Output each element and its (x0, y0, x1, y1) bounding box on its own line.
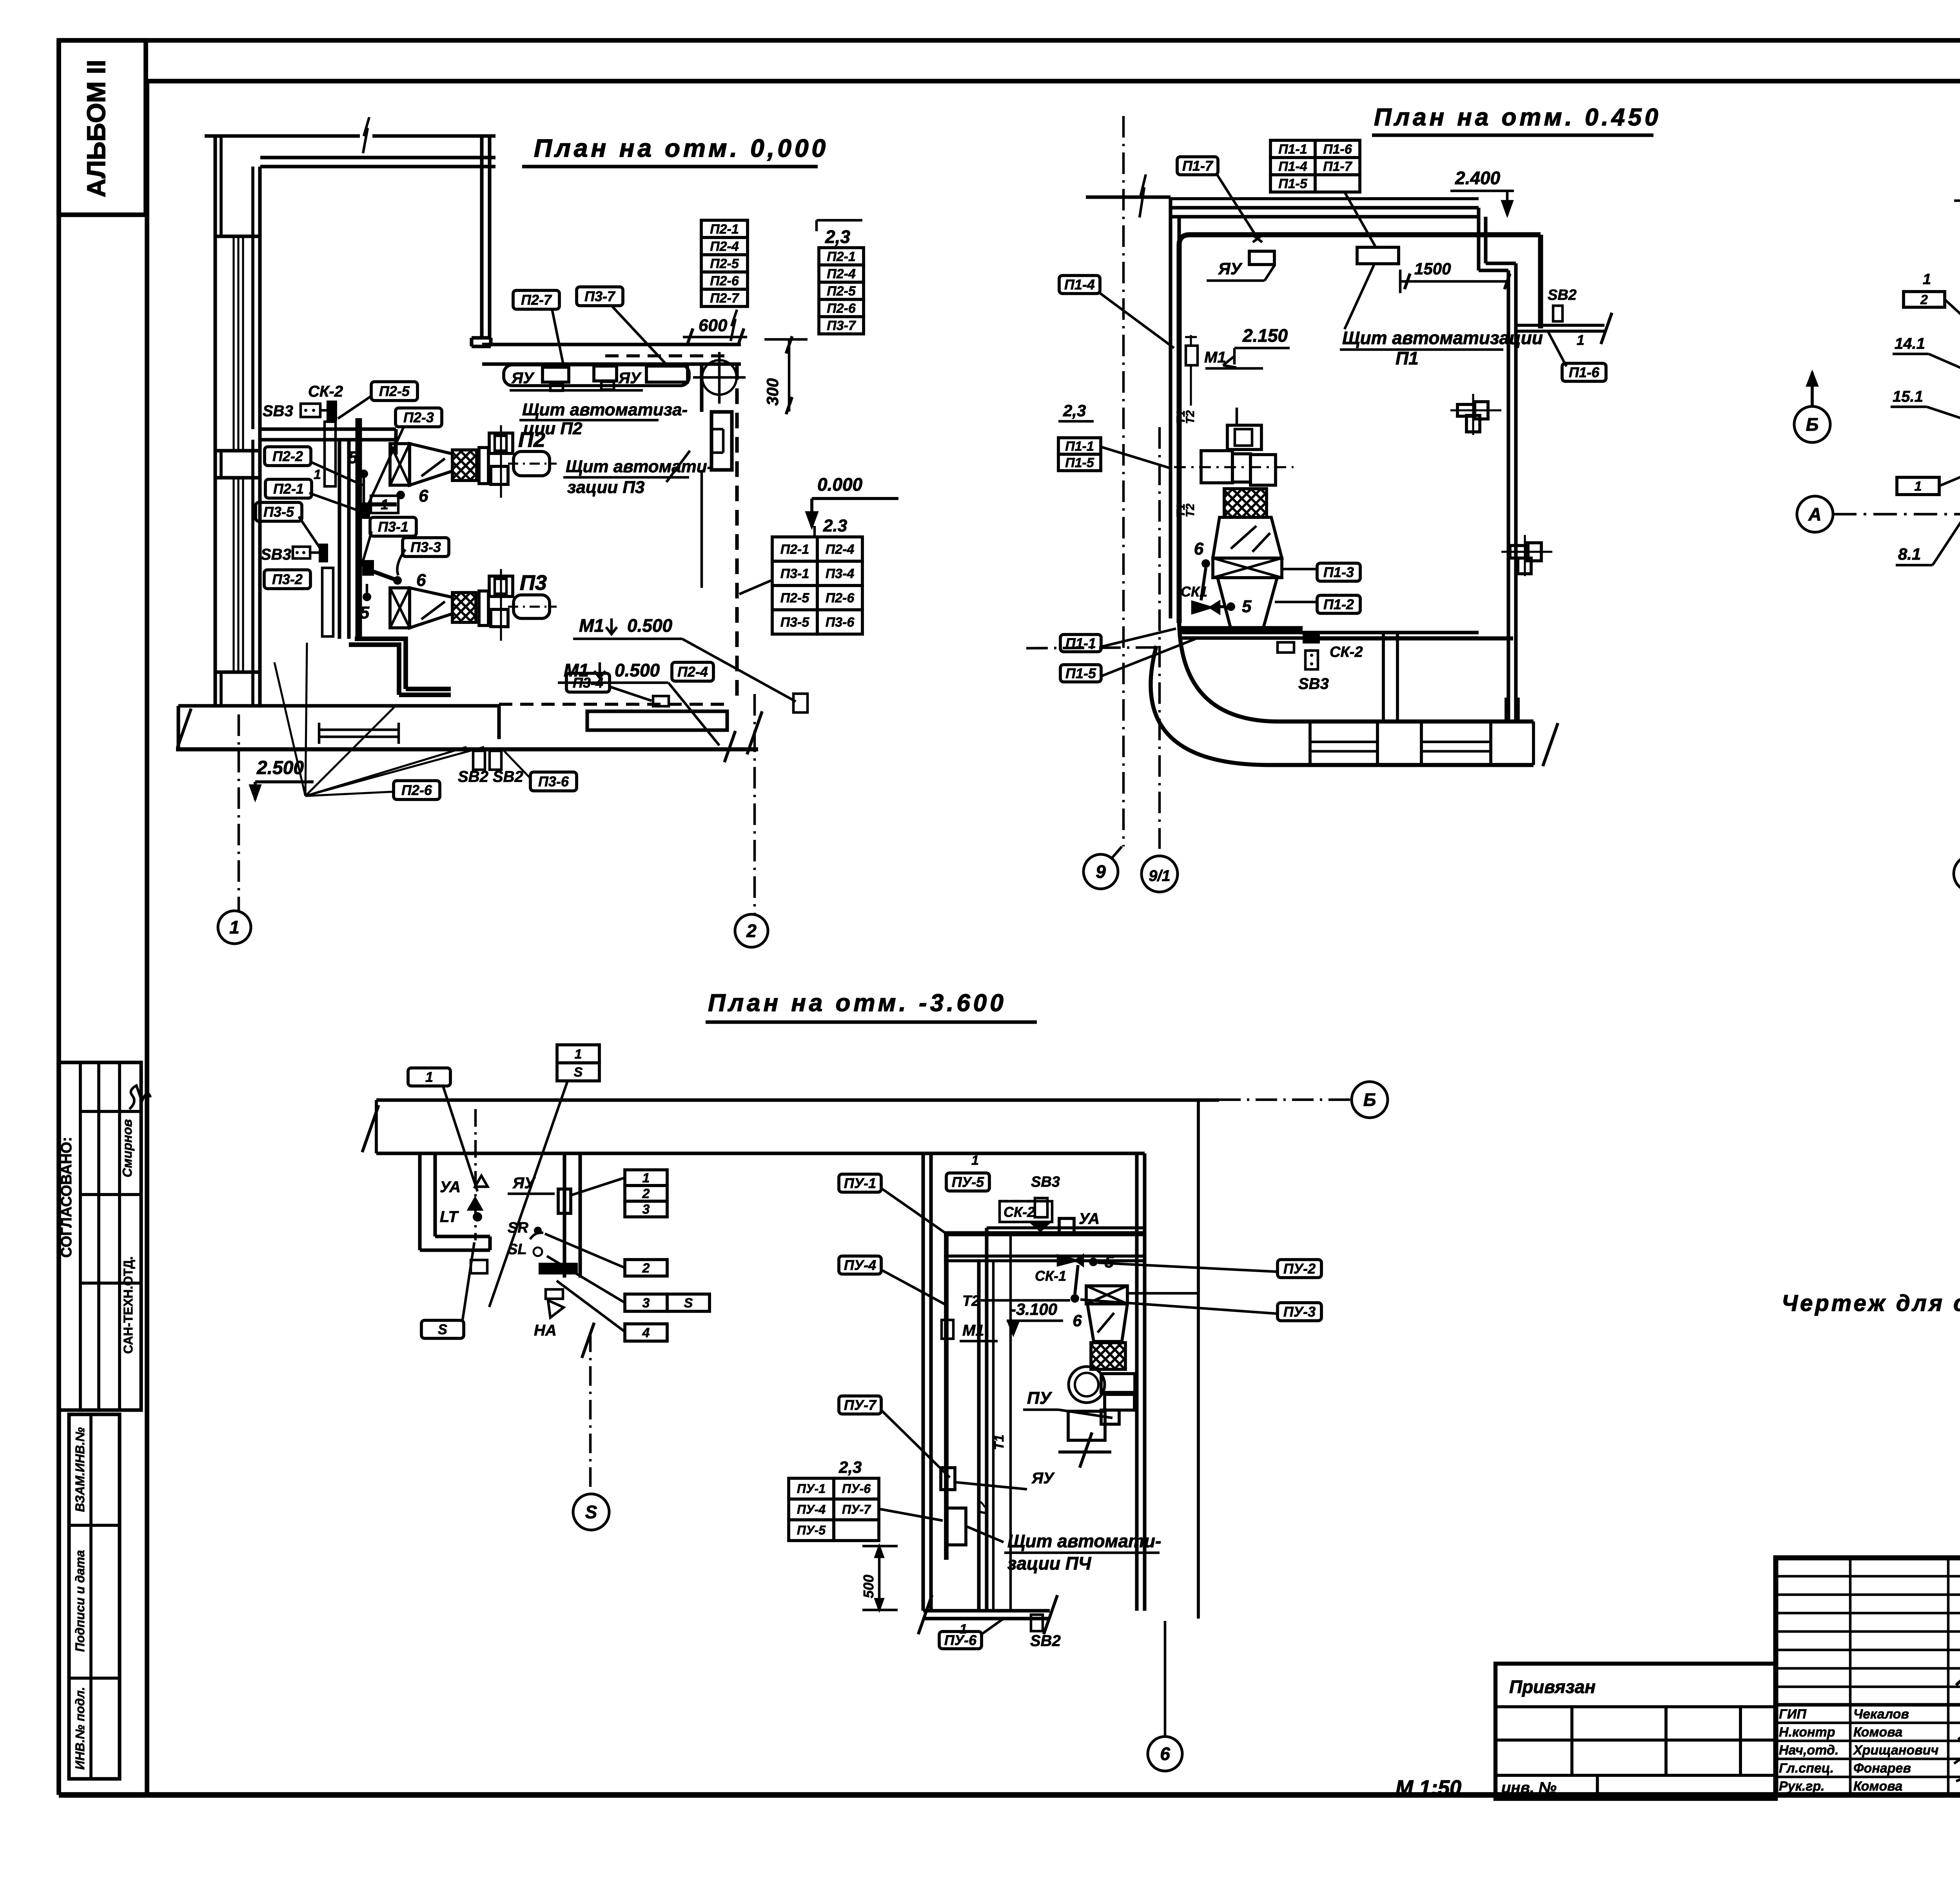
plan4 leaders from boxes (443, 1086, 477, 1191)
plan2 room top wall upper line (1171, 197, 1479, 200)
plan4 circle 6 axis (1148, 1737, 1182, 1771)
leader P1-1 stack (1101, 447, 1172, 469)
plan2 room top wall (1171, 206, 1479, 209)
svg-text:6: 6 (1194, 539, 1204, 558)
svg-text:П3-6: П3-6 (826, 615, 855, 630)
svg-text:П3-5: П3-5 (263, 504, 294, 520)
plan4 right stack 123 (625, 1170, 667, 1186)
svg-text:15.1: 15.1 (1893, 388, 1923, 405)
svg-text:П3-1: П3-1 (780, 566, 809, 581)
svg-text:Щит автоматизации: Щит автоматизации (1342, 328, 1543, 348)
plan4 subroom bottom (420, 1248, 490, 1252)
plan2 SB2 box (1553, 306, 1563, 321)
svg-text:SB3: SB3 (1298, 675, 1329, 692)
svg-text:Чекалов: Чекалов (1853, 1707, 1909, 1722)
plan1 trough YaU (504, 365, 689, 386)
label box P1-4 plan2 (1059, 276, 1100, 294)
plan2 left wall (1169, 197, 1172, 618)
plan3 axis4 top tick (1954, 199, 1960, 202)
label box P2-6 (394, 781, 440, 799)
label box P2-2 (265, 447, 311, 466)
plan4 4 box (625, 1324, 667, 1341)
plan2 top stub wall left (1086, 195, 1171, 199)
plan4 cabinet rect (947, 1508, 966, 1545)
svg-text:8.1: 8.1 (1898, 545, 1921, 563)
svg-text:П2-6: П2-6 (827, 301, 856, 316)
node 6 lower (393, 576, 402, 585)
plan2 top right step (1477, 208, 1480, 270)
label box PU-5 (946, 1173, 989, 1191)
svg-text:П2-1: П2-1 (710, 222, 739, 237)
svg-text:1: 1 (1577, 332, 1584, 348)
svg-text:2,3: 2,3 (825, 227, 850, 247)
svg-text:2,3: 2,3 (1063, 401, 1086, 420)
leader fan plan1 (274, 662, 305, 796)
plan4 T1 vertical line (1009, 1236, 1012, 1611)
leader P3-4 (610, 687, 652, 701)
svg-text:План на отм. 0.450: План на отм. 0.450 (1374, 104, 1661, 131)
leader PU-4 (881, 1270, 946, 1305)
plan1 damper circle (702, 360, 737, 395)
plan4 funnel (1087, 1304, 1127, 1341)
label box P2-7 (513, 290, 559, 309)
svg-text:П2-3: П2-3 (403, 410, 434, 426)
svg-text:П1-1: П1-1 (1065, 439, 1094, 454)
svg-text:ЯУ: ЯУ (618, 370, 642, 387)
plan1 dashed right boundary (735, 364, 739, 704)
plan1 bottom left end (176, 706, 180, 749)
svg-text:Фонарев: Фонарев (1853, 1761, 1911, 1776)
svg-text:П3-1: П3-1 (378, 519, 408, 535)
svg-text:Т2: Т2 (1184, 504, 1197, 517)
plan4 YaU rect sub (558, 1189, 571, 1213)
plan1 cable riser (356, 418, 362, 639)
sidebar signature (129, 1086, 151, 1109)
SB3 top connector (327, 401, 337, 421)
plan2 cable top (1190, 232, 1541, 237)
svg-text:П1-1: П1-1 (1065, 635, 1096, 651)
svg-text:Рук.гр.: Рук.гр. (1779, 1779, 1825, 1794)
svg-text:П2-1: П2-1 (273, 481, 304, 497)
plan1 bottom break right (747, 711, 762, 754)
svg-text:П1-4: П1-4 (1278, 159, 1307, 174)
label stack P2 top (701, 220, 748, 237)
leader table to dashed wall (739, 580, 772, 594)
svg-text:SB2: SB2 (1030, 1632, 1061, 1650)
svg-text:Подписи и дата: Подписи и дата (73, 1550, 87, 1652)
leader P1-1 low (1102, 629, 1176, 647)
sidebar lower table (69, 1414, 120, 1779)
plan1 T partition stem (338, 440, 341, 639)
svg-text:6: 6 (419, 486, 428, 506)
svg-text:SB3: SB3 (1031, 1174, 1060, 1190)
svg-text:0.500: 0.500 (615, 660, 660, 680)
plan1 window sills (215, 234, 259, 238)
node 6 upper (396, 491, 405, 499)
plan2 duct strip bottom (1266, 763, 1534, 767)
svg-text:9: 9 (1096, 861, 1106, 882)
plan1 duct bend lower (355, 639, 406, 689)
leader 2 box p4 (545, 1234, 625, 1268)
svg-text:П3-6: П3-6 (538, 774, 569, 790)
plan4 S box left (421, 1320, 464, 1338)
leader 15.1 (1927, 407, 1960, 432)
svg-text:П3-4: П3-4 (573, 675, 603, 691)
svg-text:ции П2: ции П2 (523, 419, 583, 438)
leader P2-1 (309, 493, 358, 510)
svg-text:П1-3: П1-3 (1323, 564, 1354, 580)
leader 3 box p4 (547, 1256, 625, 1303)
leader 1 box low (1939, 462, 1960, 486)
plan1 left wall inner (258, 167, 261, 707)
svg-text:Привязан: Привязан (1509, 1677, 1595, 1697)
SB3 bottom connector (319, 544, 328, 562)
plan2 duct riser 1 (1382, 632, 1385, 721)
label box P1-5 low (1060, 665, 1101, 682)
SB2 boxes plan1 (473, 751, 485, 770)
leader P2-2 (310, 462, 363, 485)
plan2 cable left riser (1177, 245, 1182, 623)
plan1 left wall outer (213, 136, 217, 707)
plan2 corner arc inner (1179, 618, 1279, 721)
plan2 duct riser 2 (1504, 698, 1508, 721)
plan2 right wall (1506, 270, 1510, 721)
leader M1-2 (668, 683, 719, 745)
svg-text:6: 6 (416, 571, 426, 590)
svg-text:П2-4: П2-4 (710, 239, 739, 254)
svg-text:2: 2 (642, 1261, 650, 1276)
label box P1-3 (1317, 563, 1360, 581)
svg-text:Б: Б (1363, 1089, 1376, 1110)
svg-text:П3-7: П3-7 (584, 288, 616, 305)
plan4 corridor left end (375, 1100, 378, 1153)
plan1 fan P2 motor (514, 451, 550, 476)
leader 4 box p4 (557, 1281, 625, 1332)
component clip P3-4 (653, 696, 669, 706)
plan2 SK-2 connector (1303, 632, 1320, 644)
svg-text:600: 600 (699, 316, 728, 335)
plan2 axis 9 break (1140, 174, 1146, 218)
svg-text:14.1: 14.1 (1895, 335, 1925, 352)
svg-text:Нач,отд.: Нач,отд. (1779, 1743, 1838, 1758)
plan2 cable right drop (1538, 235, 1543, 328)
leader PU-2 (1098, 1263, 1278, 1272)
svg-text:П3-4: П3-4 (826, 566, 855, 581)
plan1 left wall inner second (251, 167, 254, 429)
svg-text:1: 1 (642, 1171, 650, 1186)
plan2 node 5 (1227, 602, 1235, 611)
svg-text:6: 6 (1073, 1311, 1082, 1330)
leader P1-5 low (1102, 639, 1196, 676)
plan1 bottom wall inner (178, 704, 499, 707)
svg-text:1: 1 (229, 917, 240, 937)
leader schit p4 (967, 1526, 1004, 1542)
label box P3-1 (370, 517, 416, 536)
svg-text:Щит автоматиза-: Щит автоматиза- (522, 400, 688, 419)
svg-text:Смирнов: Смирнов (120, 1119, 134, 1178)
plan4 axis6 line (1164, 1621, 1167, 1737)
plan4 SK-2 dashed box (1000, 1201, 1052, 1222)
plan1 fan P2 flex hatch (452, 450, 477, 480)
stamp outline (1776, 1558, 1960, 1795)
leader schit P3 (666, 451, 690, 482)
plan1 axis 1 (238, 714, 240, 911)
label box PU-1 (839, 1174, 881, 1192)
label box PU-3 (1278, 1303, 1321, 1321)
svg-text:S: S (684, 1296, 693, 1311)
plan1 fan P3 top box (489, 576, 513, 596)
svg-text:Хрищанович: Хрищанович (1853, 1743, 1939, 1758)
svg-text:П3: П3 (520, 571, 547, 595)
plan4 fan housing rects (1101, 1374, 1135, 1392)
plan1 T partition bar (259, 427, 396, 431)
svg-text:П1-7: П1-7 (1323, 159, 1353, 174)
svg-text:П2-1: П2-1 (827, 249, 856, 264)
plan1 top wall line (205, 134, 360, 138)
svg-text:План на отм. 0,000: План на отм. 0,000 (534, 134, 829, 162)
plan4 circle B axis (1352, 1082, 1388, 1118)
label box P2-5 (371, 382, 417, 401)
plan1 trough small boxes (550, 383, 563, 391)
svg-text:1: 1 (1915, 479, 1922, 494)
svg-text:ЯУ: ЯУ (512, 1175, 536, 1192)
svg-text:2: 2 (1920, 292, 1928, 307)
leader 123 stack (571, 1178, 625, 1195)
plan2 label table P1 (1270, 140, 1315, 158)
sheet outer border (59, 38, 1960, 43)
plan1 fan P2 lower box (491, 466, 508, 484)
svg-text:П2-4: П2-4 (827, 266, 856, 281)
plan3 1 box low (1897, 477, 1939, 495)
plan1 window glazing upper (232, 236, 234, 451)
svg-text:S: S (574, 1065, 583, 1080)
svg-text:П2-5: П2-5 (827, 284, 856, 299)
leader P3-1 (361, 531, 372, 566)
svg-text:П2-7: П2-7 (521, 292, 552, 308)
plan1 fan P3 flex hatch (452, 593, 476, 622)
plan4 subroom small rect (471, 1260, 487, 1273)
plan1 fan P2 flange (479, 448, 488, 484)
plan4 T2 vertical line (992, 1261, 995, 1611)
plan1 bottom wall outer (176, 747, 758, 751)
plan4 SB3 small box (1035, 1198, 1047, 1217)
leader P1-6 (1548, 332, 1566, 366)
svg-text:П2-7: П2-7 (710, 291, 740, 306)
svg-text:Чертеж для справок: А-12: Чертеж для справок: А-12 (1782, 1291, 1960, 1316)
svg-text:1: 1 (575, 1047, 582, 1062)
plan2 duct strip top (1279, 720, 1534, 723)
plan1 bottom column strip (587, 711, 727, 730)
plan2 duct strip end break (1543, 723, 1558, 766)
svg-text:П2-5: П2-5 (710, 256, 739, 271)
plan2 fan P1 flange row (1201, 451, 1232, 483)
plan1 fan P2 xbox (390, 444, 410, 485)
svg-text:ПУ-4: ПУ-4 (844, 1257, 876, 1273)
svg-text:ПУ-6: ПУ-6 (842, 1482, 871, 1496)
plan4 hatch flex (1091, 1343, 1125, 1369)
leader schit P1 (1345, 265, 1374, 329)
svg-text:УА: УА (1079, 1210, 1100, 1227)
plan1 fan P3 motor (514, 595, 550, 618)
svg-text:5: 5 (1105, 1253, 1114, 1271)
svg-text:СК-1: СК-1 (1035, 1268, 1066, 1284)
svg-text:П1-7: П1-7 (1182, 158, 1214, 174)
svg-text:5: 5 (348, 448, 358, 467)
plan1 circle axis 1 (218, 911, 251, 944)
plan1 bottom break marks left (178, 709, 191, 748)
dim 300 vertical (788, 339, 791, 412)
plan4 axis5 dash (589, 1332, 592, 1494)
plan2 corridor right (1516, 324, 1604, 327)
plan4 corridor top line (376, 1098, 1219, 1102)
plan2 fan P1 xbox (1213, 558, 1282, 578)
plan1 trough rect 1 (543, 367, 569, 382)
plan4 valve top (1031, 1222, 1050, 1231)
plan1 trough rect 3 (646, 366, 688, 382)
svg-text:П2-5: П2-5 (780, 591, 810, 605)
plan1 bottom window glazing (319, 729, 399, 731)
leader PU-1 (881, 1188, 949, 1235)
label box PU-2 (1278, 1260, 1321, 1278)
SB3 bottom box (293, 547, 310, 558)
svg-text:УА: УА (440, 1178, 461, 1196)
svg-text:1: 1 (425, 1069, 433, 1085)
svg-text:4: 4 (642, 1325, 650, 1340)
plan4 2 box (625, 1260, 667, 1276)
plan4 room right wall (1135, 1153, 1138, 1611)
label box P1-2 (1317, 595, 1360, 613)
svg-text:ЯУ: ЯУ (511, 370, 535, 387)
plan1 bottom dashed line (499, 703, 731, 706)
svg-text:ПУ: ПУ (1027, 1389, 1053, 1408)
plan2 circle 9-1 (1142, 856, 1178, 892)
plan1 fan P3 funnel (410, 588, 452, 628)
svg-text:зации П3: зации П3 (567, 478, 644, 497)
svg-text:П1-6: П1-6 (1569, 364, 1600, 381)
svg-text:S: S (585, 1502, 597, 1522)
svg-text:П2-5: П2-5 (379, 383, 410, 399)
svg-text:9/1: 9/1 (1149, 867, 1171, 885)
plan1 fan P2 top box (489, 433, 513, 453)
sidebar soglasovano table (59, 1062, 141, 1410)
plan4 2.3 table (789, 1478, 834, 1499)
plan2 cross unit right upper (1457, 404, 1475, 416)
svg-text:П1-6: П1-6 (1323, 142, 1352, 157)
svg-text:ПУ-1: ПУ-1 (797, 1482, 826, 1496)
svg-text:2: 2 (642, 1186, 650, 1201)
svg-text:1: 1 (314, 467, 321, 482)
plan1 corridor dashed cable (605, 354, 726, 357)
svg-text:Т2: Т2 (1184, 410, 1197, 424)
svg-text:Т2: Т2 (962, 1293, 980, 1309)
label box P2-3 (396, 408, 442, 427)
svg-text:П1-5: П1-5 (1065, 665, 1096, 682)
label box P1-6 (1562, 363, 1606, 381)
svg-text:СК-2: СК-2 (1330, 644, 1363, 660)
label stack P2/P3 right (819, 248, 864, 265)
plan4 1 box topleft (408, 1068, 450, 1086)
svg-text:3: 3 (642, 1202, 650, 1217)
node 5 upper (359, 470, 368, 478)
svg-text:Б: Б (1806, 414, 1819, 435)
svg-text:АЛЬБОМ II: АЛЬБОМ II (82, 60, 111, 198)
svg-text:М1: М1 (962, 1322, 984, 1339)
svg-text:П1-2: П1-2 (1323, 596, 1354, 613)
plan4 fan PU duct stub (1127, 1292, 1198, 1295)
plan2 fan P1 stem top (1236, 408, 1238, 425)
leader S box (463, 1242, 474, 1320)
plan4 subroom bar (539, 1263, 578, 1274)
label box P3-5 (256, 502, 302, 521)
svg-text:СОГЛАСОВАНО:: СОГЛАСОВАНО: (58, 1137, 75, 1258)
plan1 fan P3 xbox (390, 588, 410, 628)
svg-text:3: 3 (642, 1296, 650, 1311)
plan4 1-S stack (557, 1045, 599, 1063)
svg-text:ПУ-7: ПУ-7 (844, 1397, 877, 1413)
svg-text:SB3: SB3 (261, 546, 291, 563)
leader PU-7 (881, 1410, 950, 1477)
plan1 fan P2 funnel (410, 444, 452, 485)
svg-text:500: 500 (860, 1575, 877, 1598)
plan4 fan circles (1069, 1367, 1105, 1403)
svg-text:П3-2: П3-2 (272, 571, 303, 587)
svg-text:ПУ-5: ПУ-5 (797, 1523, 826, 1537)
plan4 fan motor (1068, 1411, 1105, 1440)
plan1 wall stub below corridor (700, 364, 703, 412)
plan4 M1 sensor rect (942, 1320, 953, 1339)
label box P1-1 low (1060, 634, 1101, 652)
leader P2-7 (552, 309, 564, 366)
plan2 room bottom wall (1179, 631, 1479, 634)
leader 2.3 table p4 (879, 1509, 943, 1521)
label box P3-2 (264, 570, 310, 589)
svg-text:2: 2 (746, 921, 757, 941)
plan4 xbox filter (1086, 1286, 1127, 1304)
plan4 inner partition (977, 1261, 980, 1611)
svg-text:П1-4: П1-4 (1064, 277, 1095, 293)
svg-text:Н.контр: Н.контр (1779, 1725, 1835, 1740)
svg-text:П2-6: П2-6 (826, 591, 855, 605)
svg-text:ПУ-3: ПУ-3 (1283, 1304, 1316, 1320)
plan4 subroom right wall (563, 1153, 566, 1278)
svg-text:SB2: SB2 (1548, 287, 1577, 303)
plan1 top wall double (260, 156, 495, 159)
plan2 sensor on wall (1186, 346, 1198, 365)
leader P2-5 (338, 396, 372, 419)
svg-text:1: 1 (971, 1153, 979, 1168)
plan2 SB3 box (1305, 651, 1318, 669)
leader P1-7 plan2 (1217, 175, 1258, 238)
svg-text:ВЗАМ.ИНВ.№: ВЗАМ.ИНВ.№ (73, 1427, 87, 1512)
plan2 YaU rect (1249, 251, 1274, 265)
svg-text:П1-5: П1-5 (1065, 455, 1094, 470)
plan2 bottom cable (1180, 626, 1303, 631)
svg-text:П3-3: П3-3 (410, 539, 441, 555)
component box M1-1 (793, 694, 808, 712)
svg-text:зации ПЧ: зации ПЧ (1007, 1553, 1092, 1574)
leader P3-5 (299, 517, 320, 548)
svg-text:ПУ-6: ПУ-6 (944, 1632, 977, 1648)
plan4 cable down (944, 1234, 949, 1560)
svg-text:СК-2: СК-2 (1004, 1204, 1035, 1220)
connector square lower (362, 560, 374, 576)
plan4 dash axis subroom (474, 1109, 477, 1240)
plan2 axis 9-1 line (1158, 427, 1161, 849)
svg-text:5: 5 (1242, 597, 1252, 616)
svg-text:2.150: 2.150 (1242, 325, 1288, 346)
plan4 node6 (1071, 1294, 1079, 1303)
plan4 YaU small rect (941, 1468, 955, 1490)
